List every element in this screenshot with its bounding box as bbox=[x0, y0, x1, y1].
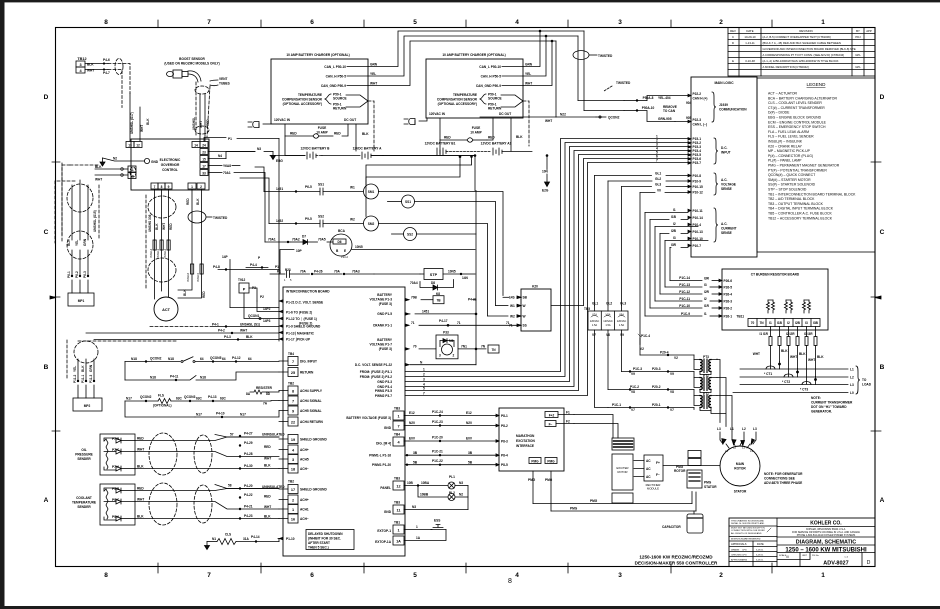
svg-text:33: 33 bbox=[202, 172, 206, 176]
svg-text:KOHLER CO.: KOHLER CO. bbox=[810, 521, 842, 527]
svg-text:C: C bbox=[732, 35, 734, 39]
svg-text:EBG: EBG bbox=[276, 159, 283, 163]
charger1 temp compensation sensor bbox=[282, 93, 374, 152]
svg-text:ESS – EMERGENCY STOP SWITCH: ESS – EMERGENCY STOP SWITCH bbox=[768, 125, 826, 129]
svg-text:CT BURDEN RESISTOR BOARD: CT BURDEN RESISTOR BOARD bbox=[751, 273, 800, 277]
svg-text:P4-2: P4-2 bbox=[218, 329, 225, 333]
shielded loop left of pins 11/10 (dashed) bbox=[55, 165, 136, 243]
svg-text:PHONE 1-800-544-2444 KOHLER PO: PHONE 1-800-544-2444 KOHLER POWER SYSTEM… bbox=[797, 534, 856, 537]
svg-text:PL1: PL1 bbox=[449, 475, 455, 479]
svg-text:DIG. INPUT: DIG. INPUT bbox=[300, 360, 317, 364]
svg-text:71: 71 bbox=[411, 321, 415, 325]
svg-text:I3: I3 bbox=[805, 321, 808, 325]
wire SM1 W coil to bus bbox=[366, 156, 472, 185]
svg-text:MARATHON: MARATHON bbox=[516, 434, 535, 438]
svg-text:P1-13 ⎢MAGNETIC: P1-13 ⎢MAGNETIC bbox=[286, 332, 315, 336]
svg-text:2: 2 bbox=[719, 19, 723, 26]
svg-text:PMG: PMG bbox=[570, 507, 578, 511]
svg-text:70A: 70A bbox=[300, 270, 307, 274]
pin 17 bbox=[200, 163, 208, 169]
svg-text:APP: APP bbox=[866, 29, 872, 33]
border bar bottom bbox=[4, 606, 940, 609]
svg-text:8: 8 bbox=[104, 572, 108, 579]
svg-text:SHIELD GROUND: SHIELD GROUND bbox=[300, 438, 327, 442]
svg-text:A.C.: A.C. bbox=[721, 222, 727, 226]
svg-text:DIG. [M 4]: DIG. [M 4] bbox=[376, 441, 391, 445]
svg-text:P(#) – CONNECTOR (PLUG): P(#) – CONNECTOR (PLUG) bbox=[768, 154, 813, 158]
marathon input rows bbox=[404, 410, 496, 466]
svg-text:ACH1: ACH1 bbox=[300, 508, 309, 512]
svg-text:17: 17 bbox=[202, 165, 206, 169]
svg-text:P4-13: P4-13 bbox=[208, 395, 217, 399]
svg-text:57: 57 bbox=[230, 433, 234, 437]
svg-text:15: 15 bbox=[202, 158, 206, 162]
svg-text:TB2: TB2 bbox=[288, 382, 294, 386]
svg-text:7: 7 bbox=[154, 185, 156, 189]
svg-text:PMG: PMG bbox=[590, 499, 598, 503]
svg-text:63C: 63C bbox=[196, 397, 203, 401]
svg-text:GND P3-3: GND P3-3 bbox=[377, 380, 392, 384]
transformer PT3 bbox=[694, 355, 717, 375]
svg-text:E0V: E0V bbox=[466, 437, 473, 441]
wire row P1 P23 70A P4-26 70A 70A3 bbox=[270, 268, 420, 282]
svg-text:F+: F+ bbox=[656, 461, 660, 465]
svg-text:CAPACITOR: CAPACITOR bbox=[662, 525, 681, 529]
svg-text:(OPTIONAL): (OPTIONAL) bbox=[153, 404, 172, 408]
svg-text:P26-1: P26-1 bbox=[724, 315, 733, 319]
svg-text:SB: SB bbox=[523, 296, 528, 300]
svg-text:P23: P23 bbox=[285, 268, 291, 272]
svg-text:W2: W2 bbox=[510, 314, 515, 318]
brace J1939 bbox=[712, 92, 747, 122]
svg-text:FLS – FUEL LEVEL SENDER: FLS – FUEL LEVEL SENDER bbox=[768, 135, 814, 139]
svg-text:13: 13 bbox=[128, 144, 132, 148]
brace DC INPUT bbox=[714, 138, 731, 164]
svg-text:L3: L3 bbox=[850, 383, 854, 387]
svg-text:RED: RED bbox=[206, 119, 210, 126]
svg-text:GRN: GRN bbox=[370, 63, 378, 67]
svg-text:D.C.: D.C. bbox=[721, 146, 727, 150]
svg-text:70A2: 70A2 bbox=[292, 238, 300, 242]
svg-text:31A: 31A bbox=[243, 537, 250, 541]
svg-text:YEL: YEL bbox=[525, 72, 531, 76]
svg-text:RED: RED bbox=[488, 136, 495, 140]
svg-text:P4-23: P4-23 bbox=[244, 514, 253, 518]
transformer PT1 bbox=[694, 392, 717, 411]
svg-text:P4-8: P4-8 bbox=[213, 265, 220, 269]
oil pressure sender bbox=[75, 434, 135, 475]
svg-text:A MODEL DESCRIPTION [CT82042]: A MODEL DESCRIPTION [CT82042] bbox=[763, 65, 809, 69]
svg-text:YEL-404: YEL-404 bbox=[658, 96, 671, 100]
svg-text:ESS: ESS bbox=[434, 519, 440, 523]
svg-text:* CT1: * CT1 bbox=[764, 372, 772, 376]
charger2 pin CAN_GND P50-9 bbox=[476, 82, 532, 89]
marathon PMG terminals bbox=[528, 458, 557, 512]
burden resistors R1-R6 bbox=[767, 300, 811, 313]
svg-text:Y6A8: Y6A8 bbox=[223, 164, 231, 168]
burden board pin rows P1C-14..P1C-9 bbox=[645, 276, 732, 319]
svg-text:AC: AC bbox=[646, 475, 651, 479]
svg-text:ACT: ACT bbox=[162, 308, 170, 312]
svg-text:2: 2 bbox=[719, 572, 723, 579]
svg-text:P20-3: P20-3 bbox=[652, 367, 661, 371]
svg-text:RED: RED bbox=[444, 136, 451, 140]
wire BLK dashed (charger1) bbox=[362, 132, 369, 136]
svg-text:YEL: YEL bbox=[370, 72, 376, 76]
svg-text:P10-14: P10-14 bbox=[693, 216, 704, 220]
svg-text:7A: 7A bbox=[263, 402, 268, 406]
svg-text:WHT: WHT bbox=[808, 358, 815, 362]
svg-text:INSUL2: INSUL2 bbox=[163, 248, 167, 258]
svg-text:BCA – BATTERY CHARGING ALTERNA: BCA – BATTERY CHARGING ALTERNATOR bbox=[768, 96, 837, 100]
svg-text:P6-2: P6-2 bbox=[75, 271, 79, 278]
svg-text:5: 5 bbox=[423, 387, 425, 391]
svg-text:P10-15: P10-15 bbox=[693, 185, 704, 189]
svg-text:120VAC IN: 120VAC IN bbox=[274, 118, 291, 122]
svg-text:I2: I2 bbox=[673, 222, 676, 226]
svg-text:PMG – PERMANENT MAGNET GENERAT: PMG – PERMANENT MAGNET GENERATOR bbox=[768, 164, 840, 168]
svg-text:CT(#) – CURRENT TRANSFORMER: CT(#) – CURRENT TRANSFORMER bbox=[768, 106, 825, 110]
svg-text:P20-1: P20-1 bbox=[652, 403, 661, 407]
svg-text:TB4: TB4 bbox=[394, 433, 400, 437]
svg-text:P1C-13: P1C-13 bbox=[679, 283, 690, 287]
wire boost WHT bbox=[199, 94, 201, 141]
svg-text:DATE: DATE bbox=[746, 29, 753, 33]
drawing frame bbox=[56, 28, 876, 567]
svg-text:V8: V8 bbox=[670, 390, 674, 394]
twisted label 2 bbox=[604, 81, 631, 91]
svg-text:E12: E12 bbox=[409, 411, 415, 415]
svg-text:P8-1: P8-1 bbox=[501, 414, 508, 418]
svg-text:ACH4 SIGNAL: ACH4 SIGNAL bbox=[300, 399, 322, 403]
svg-text:E: E bbox=[732, 59, 734, 63]
svg-text:P1C-20: P1C-20 bbox=[432, 436, 443, 440]
svg-text:BLK: BLK bbox=[81, 365, 85, 372]
terminal TB2 oil sender group bbox=[279, 435, 327, 474]
svg-text:RED: RED bbox=[264, 495, 271, 499]
svg-text:LEGEND: LEGEND bbox=[807, 82, 827, 87]
svg-text:QCON2: QCON2 bbox=[608, 116, 620, 120]
svg-text:RED: RED bbox=[186, 198, 190, 205]
svg-text:TO CAN: TO CAN bbox=[663, 109, 676, 113]
svg-text:8: 8 bbox=[161, 185, 163, 189]
svg-text:VOLTAGE P1-7: VOLTAGE P1-7 bbox=[369, 343, 392, 347]
battery 12VDC BATTERY B1 bbox=[425, 140, 490, 156]
svg-text:MODULE: MODULE bbox=[647, 487, 659, 491]
svg-text:WHT: WHT bbox=[162, 223, 166, 230]
svg-text:1.5A: 1.5A bbox=[592, 323, 598, 327]
svg-text:N3: N3 bbox=[459, 481, 463, 485]
svg-text:11: 11 bbox=[396, 509, 400, 513]
svg-text:7: 7 bbox=[207, 572, 211, 579]
wire P1C-1 P20-1 V7 bbox=[608, 403, 694, 412]
coolant temperature sender bbox=[72, 484, 135, 525]
svg-text:8: 8 bbox=[508, 578, 512, 585]
svg-text:TB3 – OUTPUT TERMINAL BLOCK: TB3 – OUTPUT TERMINAL BLOCK bbox=[768, 202, 824, 206]
terminal block TB11 bbox=[736, 315, 820, 327]
svg-text:I2: I2 bbox=[787, 321, 790, 325]
CT2 bbox=[740, 369, 848, 385]
svg-text:W: W bbox=[523, 304, 526, 308]
wire P50A-8 to P22-2 bbox=[624, 96, 692, 106]
svg-text:P26-4: P26-4 bbox=[724, 293, 733, 297]
svg-text:P4-28: P4-28 bbox=[244, 452, 253, 456]
svg-text:70A1: 70A1 bbox=[268, 238, 276, 242]
svg-text:P1C-2: P1C-2 bbox=[630, 385, 639, 389]
svg-text:OIL: OIL bbox=[81, 448, 86, 452]
svg-text:(INHIBIT FOR 30 SEC.: (INHIBIT FOR 30 SEC. bbox=[308, 537, 341, 541]
svg-text:EXTOP-1A: EXTOP-1A bbox=[375, 540, 392, 544]
svg-text:P26-2: P26-2 bbox=[724, 307, 733, 311]
grid ticks left bbox=[52, 162, 60, 431]
svg-text:5: 5 bbox=[413, 572, 417, 579]
wire row 70A1 70A2 D7 70A5 bbox=[265, 235, 333, 245]
svg-text:P4-22: P4-22 bbox=[244, 493, 253, 497]
svg-text:P4-20: P4-20 bbox=[244, 484, 253, 488]
wire 70B to 7B bbox=[405, 296, 444, 304]
PT secondary drops to generator leads bbox=[711, 359, 732, 432]
svg-text:N18: N18 bbox=[131, 357, 137, 361]
svg-text:D.C. VOLT. SENSE P1-22: D.C. VOLT. SENSE P1-22 bbox=[355, 363, 392, 367]
svg-text:V7: V7 bbox=[592, 333, 596, 337]
wire N22 bbox=[480, 113, 596, 124]
fuse block TB5 bbox=[584, 307, 628, 330]
svg-text:F−: F− bbox=[656, 473, 660, 477]
svg-text:3: 3 bbox=[618, 19, 622, 26]
twisted oval on CAN riser bbox=[573, 51, 613, 60]
svg-text:P1C-14: P1C-14 bbox=[679, 276, 690, 280]
svg-text:120VAC: 120VAC bbox=[603, 319, 613, 323]
svg-text:SS: SS bbox=[523, 324, 527, 328]
svg-text:ALL RIGHTS OF DESIGN AND: ALL RIGHTS OF DESIGN AND bbox=[731, 532, 762, 535]
svg-text:GOVERNOR: GOVERNOR bbox=[161, 163, 180, 167]
brace AC CURRENT SENSE bbox=[714, 208, 737, 242]
svg-text:(BULK-7 A, -45) RED AND BLK SH: (BULK-7 A, -45) RED AND BLK SHIELDED CAB… bbox=[763, 41, 841, 45]
svg-text:E0V: E0V bbox=[409, 437, 416, 441]
svg-text:BLK: BLK bbox=[137, 515, 144, 519]
svg-text:P6-1: P6-1 bbox=[67, 271, 71, 278]
svg-text:P20-4: P20-4 bbox=[660, 351, 669, 355]
svg-text:CHECKED: CHECKED bbox=[731, 555, 742, 557]
svg-text:70A: 70A bbox=[334, 270, 341, 274]
svg-text:E12: E12 bbox=[466, 411, 472, 415]
wire GL1 row bbox=[595, 172, 689, 176]
svg-text:1: 1 bbox=[191, 185, 193, 189]
grid ticks bottom bbox=[158, 563, 772, 573]
svg-text:GND P1-5: GND P1-5 bbox=[377, 312, 392, 316]
svg-text:DC OUT: DC OUT bbox=[499, 112, 511, 116]
wire P20-4 V2 bbox=[640, 347, 694, 360]
wire charger2 to fuse bbox=[439, 118, 441, 140]
pin P22-2 CAN H bbox=[688, 92, 707, 100]
MP wires to board (shielded pair) bbox=[78, 323, 279, 342]
svg-text:WHT: WHT bbox=[264, 505, 271, 509]
svg-text:BLK: BLK bbox=[246, 335, 253, 339]
marathon excitation interface bbox=[496, 408, 564, 471]
svg-text:V8: V8 bbox=[631, 390, 635, 394]
svg-text:VOLTAGE: VOLTAGE bbox=[721, 183, 736, 187]
svg-text:P4-3: P4-3 bbox=[224, 335, 231, 339]
accessory connector T912 P bbox=[230, 278, 279, 323]
wire N2 to ground bbox=[103, 157, 145, 162]
wire P1 from pin 24 bbox=[204, 137, 279, 142]
CAN wire GRN charger1 riser bbox=[368, 31, 584, 67]
pin 13 bbox=[126, 142, 134, 148]
svg-text:WHT: WHT bbox=[790, 355, 797, 359]
svg-text:CAN_GND P50-9: CAN_GND P50-9 bbox=[321, 84, 346, 88]
svg-text:1A: 1A bbox=[416, 536, 421, 540]
svg-text:I3 I3R: I3 I3R bbox=[804, 332, 813, 336]
svg-text:8D: 8D bbox=[266, 392, 271, 396]
svg-text:CONTROL: CONTROL bbox=[162, 168, 178, 172]
svg-text:64: 64 bbox=[248, 357, 252, 361]
svg-text:SS1: SS1 bbox=[405, 200, 411, 204]
svg-text:V7: V7 bbox=[670, 408, 674, 412]
svg-text:UNINSULATED: UNINSULATED bbox=[262, 485, 285, 489]
svg-text:120VAC: 120VAC bbox=[590, 319, 600, 323]
AC plug 1 bbox=[248, 122, 271, 128]
svg-text:10 AMP: 10 AMP bbox=[470, 131, 482, 135]
svg-text:P10-8: P10-8 bbox=[693, 174, 702, 178]
svg-text:BLK: BLK bbox=[264, 515, 271, 519]
svg-text:UNSHSL (S15): UNSHSL (S15) bbox=[93, 210, 97, 232]
svg-text:P50A-8: P50A-8 bbox=[643, 96, 654, 100]
svg-text:ACH−: ACH− bbox=[300, 517, 309, 521]
svg-text:70: 70 bbox=[413, 345, 417, 349]
svg-text:P11-3: P11-3 bbox=[89, 374, 93, 383]
svg-text:P10-13: P10-13 bbox=[693, 230, 704, 234]
svg-text:K20 – CRANK RELAY: K20 – CRANK RELAY bbox=[768, 144, 803, 148]
wire Y6A8 from pin 17 bbox=[208, 164, 240, 168]
svg-text:14S: 14S bbox=[509, 296, 515, 300]
coolant level sender CLS bbox=[205, 533, 280, 550]
svg-text:COMPENSATION SENSOR: COMPENSATION SENSOR bbox=[437, 98, 478, 102]
svg-text:P4-21: P4-21 bbox=[244, 505, 253, 509]
svg-text:AC: AC bbox=[646, 467, 651, 471]
svg-text:E: E bbox=[344, 249, 346, 253]
starter solenoid SS2 bbox=[392, 228, 477, 241]
svg-text:10-29-10: 10-29-10 bbox=[744, 35, 756, 39]
svg-text:A: A bbox=[880, 497, 885, 504]
svg-text:SS2: SS2 bbox=[407, 233, 413, 237]
svg-text:GL1: GL1 bbox=[592, 302, 598, 306]
svg-text:SS2: SS2 bbox=[318, 215, 324, 219]
MP1 cable shields bbox=[62, 163, 99, 259]
svg-text:4: 4 bbox=[515, 19, 519, 26]
svg-text:DECISION-MAKER 550 CONTROLLER: DECISION-MAKER 550 CONTROLLER bbox=[635, 561, 718, 566]
svg-text:64: 64 bbox=[222, 357, 226, 361]
svg-text:PWM1 P3-5: PWM1 P3-5 bbox=[375, 389, 392, 393]
CAN wire YEL charger2 bbox=[523, 35, 547, 76]
svg-text:TB5 – CONTROLLER A.C. FUSE BLO: TB5 – CONTROLLER A.C. FUSE BLOCK bbox=[768, 212, 833, 216]
svg-text:120VAC: 120VAC bbox=[617, 319, 627, 323]
wire I3R row to P10-7 bbox=[670, 243, 688, 248]
svg-text:CFG: CFG bbox=[742, 555, 747, 557]
pin 7 bbox=[151, 183, 158, 189]
relay P33 bbox=[436, 331, 458, 359]
svg-text:RED: RED bbox=[137, 437, 144, 441]
svg-text:P11-2: P11-2 bbox=[73, 374, 77, 383]
svg-text:PMG: PMG bbox=[528, 478, 536, 482]
rectifier module bbox=[634, 455, 663, 491]
svg-text:PG No.: PG No. bbox=[812, 555, 820, 557]
generator stator bbox=[720, 442, 760, 494]
svg-text:1452: 1452 bbox=[276, 219, 283, 223]
svg-text:TB3: TB3 bbox=[394, 477, 400, 481]
svg-text:P6-5: P6-5 bbox=[305, 185, 312, 189]
svg-text:(USED ON REOZMC MODELS ONLY): (USED ON REOZMC MODELS ONLY) bbox=[164, 62, 219, 66]
svg-text:TWISTED: TWISTED bbox=[598, 54, 613, 58]
svg-text:P4-4: P4-4 bbox=[250, 263, 257, 267]
svg-text:7: 7 bbox=[207, 19, 211, 26]
svg-text:TB12 – ACCESSORY TERMINAL BLOC: TB12 – ACCESSORY TERMINAL BLOCK bbox=[768, 216, 833, 220]
svg-text:INSUL5: INSUL5 bbox=[196, 272, 200, 282]
svg-text:RETURN: RETURN bbox=[300, 371, 314, 375]
wire GL3 row bbox=[622, 183, 689, 187]
FLS optional resistor row bbox=[125, 394, 279, 408]
svg-text:1: 1 bbox=[292, 508, 294, 512]
svg-text:BATTERY VOLTAGE (FUSE 3): BATTERY VOLTAGE (FUSE 3) bbox=[346, 416, 391, 420]
svg-text:QCON1: QCON1 bbox=[248, 314, 260, 318]
svg-text:I3: I3 bbox=[704, 283, 707, 287]
svg-text:23: 23 bbox=[202, 151, 206, 155]
svg-text:10BA: 10BA bbox=[421, 481, 430, 485]
svg-text:WRS: WRS bbox=[742, 560, 748, 562]
svg-text:P4-26: P4-26 bbox=[314, 270, 323, 274]
svg-text:I2B: I2B bbox=[795, 321, 801, 325]
svg-text:BY: BY bbox=[856, 29, 860, 33]
svg-text:BLK: BLK bbox=[196, 198, 200, 205]
relay row 1452 SS2 SM2 bbox=[240, 178, 488, 316]
wire charger1 to fuse bbox=[284, 124, 286, 136]
svg-text:BLK: BLK bbox=[264, 464, 271, 468]
svg-text:P1C-10: P1C-10 bbox=[679, 304, 690, 308]
svg-text:10BB: 10BB bbox=[420, 493, 429, 497]
svg-text:WHT: WHT bbox=[137, 448, 144, 452]
svg-text:VOLTAGE P1-3: VOLTAGE P1-3 bbox=[369, 298, 392, 302]
wire P1C-3 P20-3 V9 bbox=[622, 367, 695, 378]
svg-text:P1: P1 bbox=[275, 265, 279, 269]
svg-text:QCON3: QCON3 bbox=[184, 395, 196, 399]
svg-text:NOTE: FOR GENERATOR: NOTE: FOR GENERATOR bbox=[764, 472, 803, 476]
svg-text:V2: V2 bbox=[674, 356, 678, 360]
svg-text:ACH4 SUPPLY: ACH4 SUPPLY bbox=[300, 389, 323, 393]
svg-text:14P2: 14P2 bbox=[263, 307, 271, 311]
svg-text:ROTOR: ROTOR bbox=[674, 469, 686, 473]
svg-text:SS1: SS1 bbox=[318, 183, 324, 187]
svg-text:3B: 3B bbox=[413, 451, 418, 455]
svg-text:P1C-21: P1C-21 bbox=[432, 450, 443, 454]
svg-text:TB1: TB1 bbox=[394, 521, 400, 525]
relay row 1451 SS1 SM1 bbox=[255, 167, 503, 296]
svg-text:P1-9 SHIELD GROUND: P1-9 SHIELD GROUND bbox=[286, 325, 321, 329]
svg-text:BLK: BLK bbox=[817, 355, 824, 359]
svg-text:7: 7 bbox=[656, 159, 658, 163]
wire bus down to nest bbox=[474, 156, 476, 191]
svg-text:D: D bbox=[732, 41, 734, 45]
svg-text:F+2: F+2 bbox=[549, 413, 555, 417]
svg-text:P1-6 TO (FUSE 2): P1-6 TO (FUSE 2) bbox=[286, 311, 312, 315]
svg-text:71: 71 bbox=[506, 321, 510, 325]
svg-text:14N: 14N bbox=[462, 276, 469, 280]
svg-text:N2: N2 bbox=[113, 157, 117, 161]
svg-text:TB1 – INTERCONNECTION BOARD TE: TB1 – INTERCONNECTION BOARD TERMINAL BLO… bbox=[768, 192, 856, 196]
svg-text:QCON2: QCON2 bbox=[150, 357, 162, 361]
svg-text:PT3: PT3 bbox=[703, 355, 709, 359]
svg-text:L3: L3 bbox=[717, 427, 721, 431]
ACT cable shields bbox=[146, 195, 176, 290]
fuse 10 amp (charger2) bbox=[440, 118, 495, 142]
